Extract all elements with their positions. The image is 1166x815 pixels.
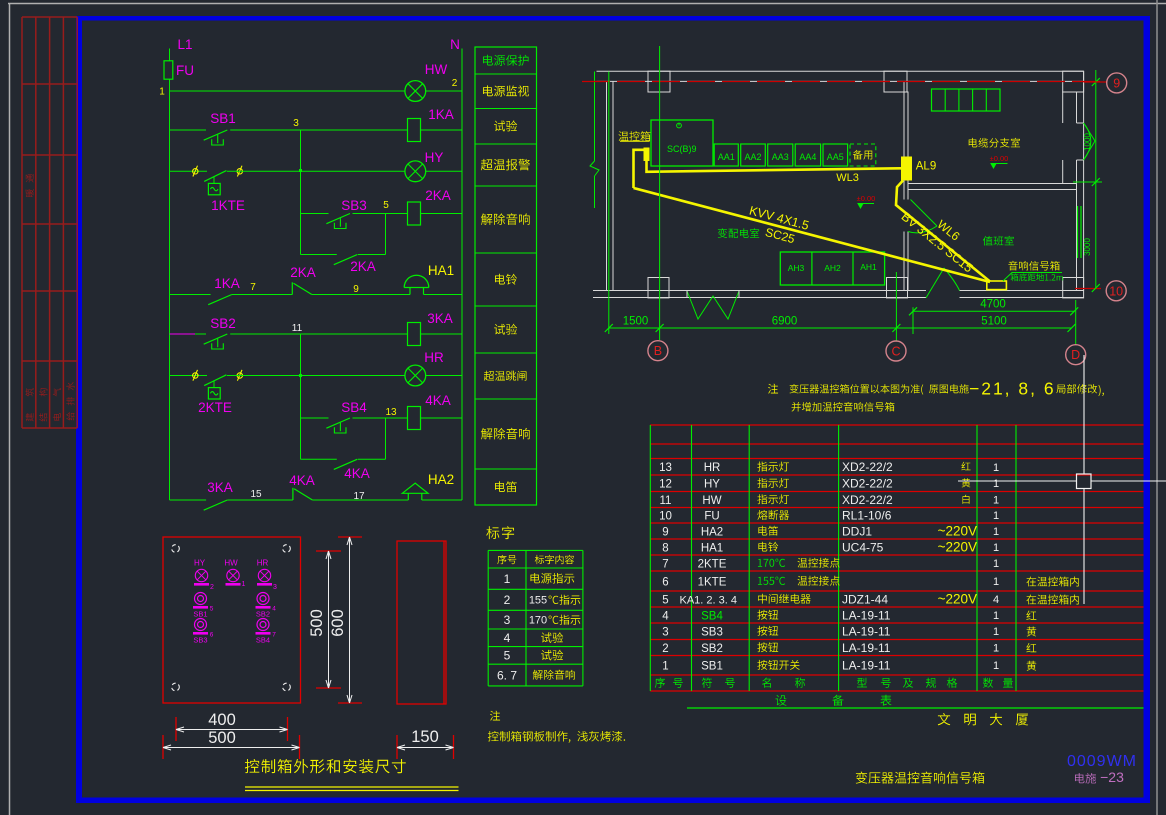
svg-text:HA2: HA2 [701,526,723,538]
svg-text:WL3: WL3 [836,172,859,184]
svg-text:1: 1 [242,581,246,588]
svg-text:4KA: 4KA [344,466,370,481]
svg-text:HR: HR [424,350,444,365]
svg-text:AH1: AH1 [860,262,877,272]
svg-text:AH2: AH2 [824,263,841,273]
svg-text:3000: 3000 [1083,238,1092,256]
svg-text:4700: 4700 [980,299,1006,311]
svg-text:HW: HW [425,62,448,77]
svg-text:1: 1 [993,495,999,507]
svg-text:HA1: HA1 [701,542,723,554]
svg-text:L1: L1 [177,37,192,52]
svg-text:10: 10 [1109,284,1123,298]
svg-text:SB4: SB4 [256,636,270,645]
svg-text:5: 5 [383,200,389,211]
svg-text:2KTE: 2KTE [698,558,727,570]
svg-text:17: 17 [353,491,365,502]
svg-text:170: 170 [529,615,547,627]
svg-text:KA1. 2. 3. 4: KA1. 2. 3. 4 [680,594,737,606]
svg-text:1: 1 [993,478,999,490]
svg-text:FU: FU [176,63,194,78]
svg-text:±0.00: ±0.00 [857,194,876,203]
svg-text:1: 1 [993,610,999,622]
svg-text:2: 2 [452,78,458,89]
svg-text:DDJ1: DDJ1 [842,524,872,538]
svg-text:1: 1 [159,87,165,98]
svg-text:0009WM: 0009WM [1067,753,1137,770]
svg-text:3: 3 [504,613,511,627]
svg-text:1: 1 [993,626,999,638]
svg-text:4KA: 4KA [289,473,315,488]
svg-text:3KA: 3KA [427,311,453,326]
svg-text:10: 10 [659,511,672,523]
svg-text:HW: HW [224,559,238,568]
svg-text:4: 4 [272,606,276,613]
svg-text:6: 6 [662,576,668,588]
svg-text:1000: 1000 [1083,133,1092,151]
svg-text:12: 12 [659,479,672,491]
svg-text:HW: HW [702,495,721,507]
svg-text:FU: FU [704,511,719,523]
svg-text:AA4: AA4 [799,152,816,162]
svg-text:1KTE: 1KTE [211,198,245,213]
svg-text:13: 13 [385,407,397,418]
svg-text:1: 1 [993,526,999,538]
svg-text:SB2: SB2 [701,643,723,655]
svg-text:150: 150 [411,728,439,746]
svg-text:1: 1 [993,462,999,474]
svg-text:LA-19-11: LA-19-11 [842,641,891,655]
svg-text:LA-19-11: LA-19-11 [842,608,891,622]
svg-text:SB3: SB3 [341,198,367,213]
svg-text:~220V: ~220V [938,592,977,607]
svg-text:RL1-10/6: RL1-10/6 [842,509,892,523]
svg-text:SB1: SB1 [210,111,236,126]
svg-text:2KTE: 2KTE [198,400,232,415]
svg-text:LA-19-11: LA-19-11 [842,624,891,638]
svg-text:HR: HR [704,462,721,474]
svg-text:600: 600 [329,609,347,637]
svg-text:1500: 1500 [623,316,649,328]
svg-text:9: 9 [662,526,668,538]
svg-text:XD2-22/2: XD2-22/2 [842,477,893,491]
svg-text:3KA: 3KA [207,480,233,495]
svg-text:5: 5 [662,594,668,606]
svg-text:±0.00: ±0.00 [990,154,1009,163]
svg-text:HY: HY [704,479,720,491]
svg-text:1: 1 [993,558,999,570]
svg-text:XD2-22/2: XD2-22/2 [842,460,893,474]
svg-text:2KA: 2KA [290,265,316,280]
svg-text:HY: HY [194,559,206,568]
svg-text:UC4-75: UC4-75 [842,540,884,554]
svg-text:4: 4 [993,594,999,606]
svg-text:1: 1 [662,661,668,673]
svg-text:400: 400 [208,711,236,729]
svg-text:1: 1 [993,576,999,588]
svg-text:2KA: 2KA [425,188,451,203]
svg-text:SB4: SB4 [341,400,367,415]
svg-text:6. 7: 6. 7 [497,668,517,682]
svg-text:4KA: 4KA [425,393,451,408]
svg-text:11: 11 [292,323,303,334]
svg-text:3: 3 [293,118,299,129]
svg-text:2: 2 [504,593,511,607]
svg-text:SB2: SB2 [256,610,270,619]
svg-text:1: 1 [993,542,999,554]
svg-text:−21, 8, 6: −21, 8, 6 [969,379,1056,399]
svg-text:13: 13 [659,462,672,474]
svg-text:SB1: SB1 [701,661,723,673]
svg-text:AH3: AH3 [788,263,805,273]
svg-text:1: 1 [993,510,999,522]
svg-text:9: 9 [1113,76,1120,90]
svg-text:JDZ1-44: JDZ1-44 [842,592,888,606]
svg-text:11: 11 [660,495,672,507]
svg-text:HA1: HA1 [428,263,454,278]
svg-text:3: 3 [273,584,277,591]
svg-text:6900: 6900 [772,316,798,328]
svg-text:−23: −23 [1100,769,1124,785]
svg-text:SB2: SB2 [210,316,236,331]
svg-text:AL9: AL9 [916,161,936,173]
svg-text:B: B [654,344,662,358]
svg-text:5100: 5100 [981,316,1007,328]
svg-text:2KA: 2KA [350,259,376,274]
svg-text:SB1: SB1 [193,610,207,619]
svg-text:SB4: SB4 [701,610,723,622]
svg-text:AA1: AA1 [718,152,735,162]
svg-text:1: 1 [993,643,999,655]
svg-text:9: 9 [353,284,359,295]
svg-text:7: 7 [662,558,668,570]
svg-text:500: 500 [308,609,326,637]
svg-text:AA2: AA2 [744,152,761,162]
svg-text:8: 8 [662,542,668,554]
svg-text:N: N [450,37,460,52]
svg-text:C: C [891,345,900,359]
svg-text:SB3: SB3 [193,636,207,645]
svg-text:5: 5 [504,649,511,663]
svg-text:500: 500 [208,729,236,747]
svg-text:~220V: ~220V [938,524,977,539]
svg-text:SC(B)9: SC(B)9 [667,144,697,154]
svg-text:15: 15 [250,489,262,500]
svg-text:2: 2 [210,584,214,591]
svg-text:XD2-22/2: XD2-22/2 [842,493,893,507]
svg-text:7: 7 [250,282,256,293]
svg-text:AA3: AA3 [772,152,789,162]
svg-text:D: D [1071,348,1080,362]
svg-text:HR: HR [257,559,269,568]
svg-text:2: 2 [662,643,668,655]
svg-text:HY: HY [425,150,444,165]
svg-text:HA2: HA2 [428,472,454,487]
svg-text:AA5: AA5 [827,152,844,162]
svg-text:155: 155 [529,595,547,607]
svg-text:6: 6 [210,632,214,639]
svg-text:4: 4 [662,610,669,622]
svg-text:1KA: 1KA [428,107,454,122]
svg-text:SB3: SB3 [701,626,723,638]
svg-text:~220V: ~220V [938,540,977,555]
svg-text:5: 5 [210,606,214,613]
svg-text:1KA: 1KA [214,276,240,291]
svg-text:1KTE: 1KTE [698,576,727,588]
svg-text:3: 3 [662,626,668,638]
svg-text:1: 1 [993,660,999,672]
svg-text:7: 7 [272,632,276,639]
svg-text:1: 1 [504,572,511,586]
svg-text:LA-19-11: LA-19-11 [842,659,891,673]
svg-text:4: 4 [504,631,511,645]
